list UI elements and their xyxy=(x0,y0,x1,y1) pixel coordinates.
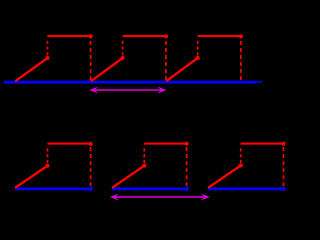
bottom dashed drop 1 xyxy=(90,147,92,186)
bottom baseline-end dot 3 (blue) xyxy=(281,187,285,191)
top dashed jump up 3 xyxy=(197,41,199,56)
bottom plateau-end dot 3 xyxy=(281,142,285,146)
top plateau-end dot 1 xyxy=(89,34,93,38)
bottom dashed jump up 3 xyxy=(240,148,242,163)
top ramp 3 xyxy=(166,58,198,81)
top dashed drop 1 xyxy=(90,41,92,81)
top dashed jump up 2 xyxy=(122,41,124,56)
bottom dashed jump up 1 xyxy=(47,148,49,163)
bottom baseline segment 2 (blue) xyxy=(112,187,187,190)
bottom plateau-end dot 2 xyxy=(185,142,189,146)
top plateau-end dot 2 xyxy=(164,34,168,38)
bottom baseline-end dot 2 (blue) xyxy=(185,187,189,191)
top dashed drop 2 xyxy=(165,41,167,81)
top period arrow (magenta, double-headed) xyxy=(89,87,166,94)
bottom plateau 2 xyxy=(144,143,186,145)
bottom ramp 3 xyxy=(208,166,241,188)
top x-axis faded end xyxy=(256,81,263,83)
top ramp 2 xyxy=(91,58,123,81)
top dashed jump up 1 xyxy=(47,41,49,56)
bottom dashed drop 3 xyxy=(283,147,285,186)
bottom ramp 1 xyxy=(15,166,48,188)
top plateau-end dot 3 xyxy=(239,34,243,38)
bottom dashed drop 2 xyxy=(186,147,188,186)
bottom baseline-end dot 1 (blue) xyxy=(89,187,93,191)
bottom ramp-end dot 1 xyxy=(45,164,49,168)
top plateau 1 xyxy=(47,35,90,37)
top ramp-end dot 1 xyxy=(45,56,49,60)
top x-axis (blue) xyxy=(4,81,256,84)
bottom plateau 1 xyxy=(47,143,90,145)
top plateau 3 xyxy=(198,35,241,37)
bottom period arrow (magenta, double-headed) xyxy=(110,194,210,201)
bottom ramp-end dot 2 xyxy=(142,164,146,168)
bottom ramp 2 xyxy=(112,166,144,188)
bottom plateau 3 xyxy=(241,143,284,145)
top plateau 2 xyxy=(123,35,166,37)
bottom dashed jump up 2 xyxy=(143,148,145,163)
bottom baseline segment 1 (blue) xyxy=(15,187,91,190)
top ramp-end dot 2 xyxy=(121,56,125,60)
top dashed drop 3 xyxy=(240,41,242,81)
bottom ramp-end dot 3 xyxy=(239,163,243,167)
bottom baseline segment 3 (blue) xyxy=(208,187,284,190)
bottom plateau-end dot 1 xyxy=(89,142,93,146)
top ramp 1 xyxy=(15,58,47,81)
top ramp-end dot 3 xyxy=(196,56,200,60)
